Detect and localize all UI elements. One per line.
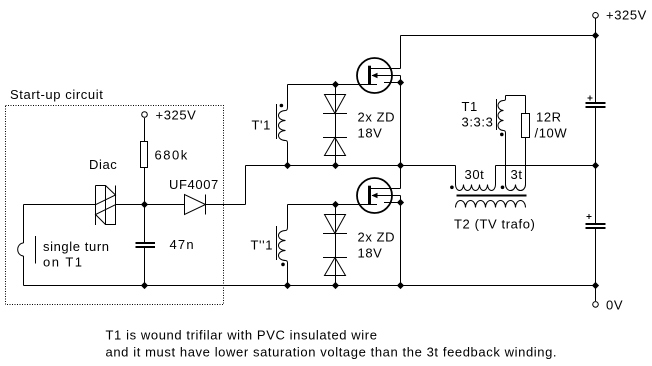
svg-text:3t: 3t <box>511 167 523 182</box>
svg-text:3:3:3: 3:3:3 <box>462 115 494 130</box>
svg-text:2x ZD: 2x ZD <box>358 230 396 245</box>
svg-text:30t: 30t <box>465 167 485 182</box>
svg-text:T''1: T''1 <box>251 238 274 253</box>
svg-text:T2 (TV trafo): T2 (TV trafo) <box>454 217 535 232</box>
svg-text:2x ZD: 2x ZD <box>358 110 396 125</box>
svg-text:+325V: +325V <box>156 108 197 123</box>
svg-text:0V: 0V <box>606 298 623 313</box>
svg-text:on T1: on T1 <box>43 255 84 270</box>
svg-text:Start-up circuit: Start-up circuit <box>10 87 103 102</box>
svg-text:12R: 12R <box>536 110 562 125</box>
svg-text:/10W: /10W <box>535 126 568 141</box>
svg-text:T'1: T'1 <box>252 118 271 133</box>
svg-text:680k: 680k <box>155 148 189 163</box>
svg-text:single turn: single turn <box>43 239 110 254</box>
svg-text:and it must have lower saturat: and it must have lower saturation voltag… <box>106 345 558 360</box>
svg-text:47n: 47n <box>170 237 195 252</box>
svg-text:18V: 18V <box>358 126 383 141</box>
svg-text:T1: T1 <box>462 99 478 114</box>
svg-text:T1 is wound trifilar with PVC: T1 is wound trifilar with PVC insulated … <box>106 328 378 343</box>
svg-text:Diac: Diac <box>89 157 117 172</box>
svg-text:UF4007: UF4007 <box>169 177 219 192</box>
svg-text:18V: 18V <box>358 246 383 261</box>
svg-text:+325V: +325V <box>606 8 647 23</box>
